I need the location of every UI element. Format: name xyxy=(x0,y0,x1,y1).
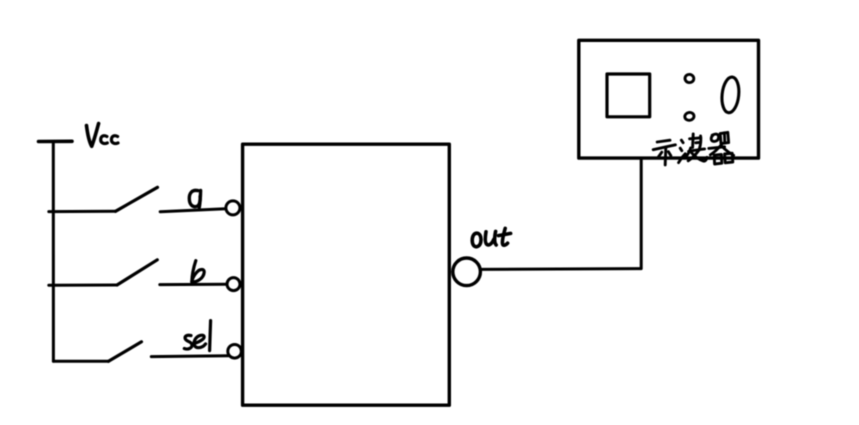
wire: row sel left segment xyxy=(53,360,108,363)
oscilloscope button circle top xyxy=(684,74,694,83)
wire: row a left segment xyxy=(49,210,116,213)
node circle input a xyxy=(226,201,240,215)
label sel xyxy=(184,321,210,351)
node circle input b xyxy=(227,278,240,291)
oscilloscope knob ellipse xyxy=(720,76,740,113)
switch sel (open blade) xyxy=(109,342,142,362)
output node circle xyxy=(453,258,481,286)
wire: vertical rail from Vcc xyxy=(52,143,55,362)
wire: output to oscilloscope (horizontal then up) xyxy=(481,158,642,269)
switch b (open blade) xyxy=(117,260,157,285)
oscilloscope button circle bottom xyxy=(684,112,694,121)
char 波 right part xyxy=(690,138,701,139)
multiplexer box U1 xyxy=(243,144,450,405)
label a xyxy=(189,190,200,207)
char 器 xyxy=(711,134,718,141)
oscilloscope screen square xyxy=(607,74,650,117)
char 示 xyxy=(657,140,670,142)
label b xyxy=(192,261,204,282)
node circle input sel xyxy=(228,345,242,359)
switch a (open blade) xyxy=(116,187,158,211)
label Vcc xyxy=(87,124,119,147)
wire: row sel right segment xyxy=(151,354,228,358)
wire: row b left segment xyxy=(49,284,117,287)
wire: row b right segment xyxy=(160,283,227,286)
label 示波器 (oscilloscope), hand-drawn strokes xyxy=(653,132,733,165)
wire: row a right segment xyxy=(160,209,225,212)
oscilloscope box xyxy=(579,40,759,158)
label out xyxy=(472,228,510,246)
power rail Vcc bar xyxy=(39,140,73,144)
char 波 water radical xyxy=(681,140,683,143)
